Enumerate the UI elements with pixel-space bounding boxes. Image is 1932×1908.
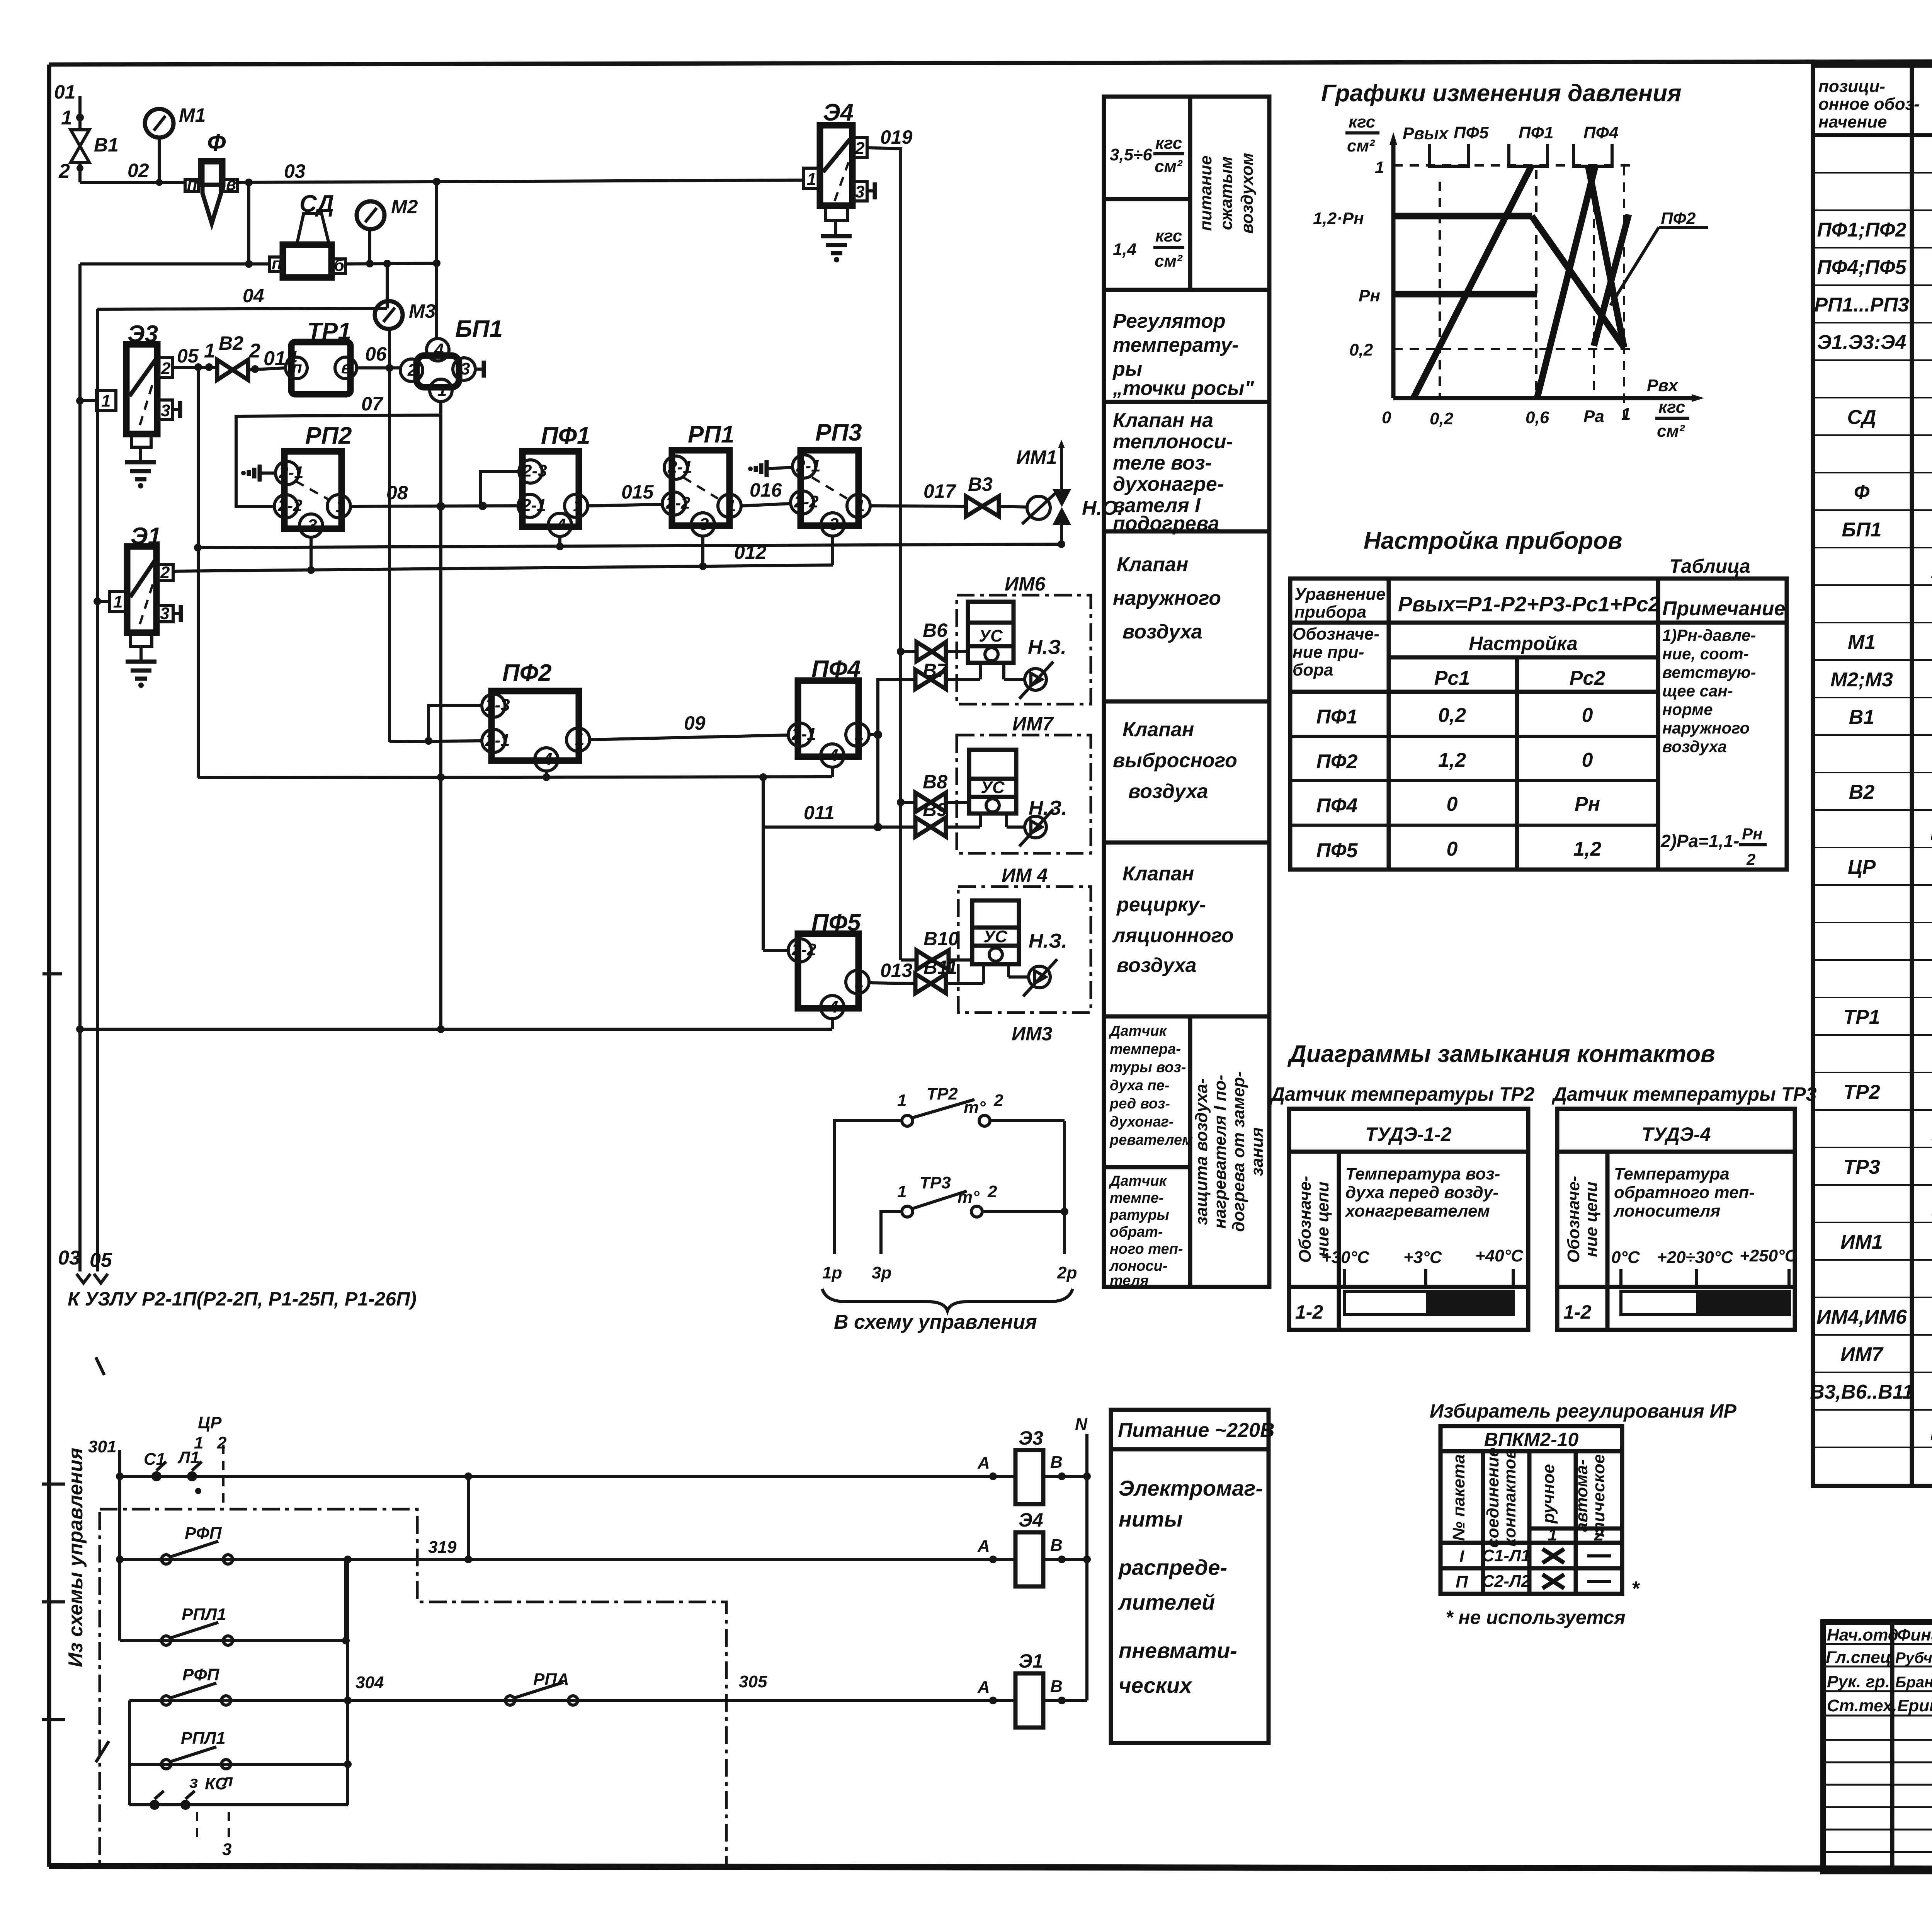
wire 08: [350, 482, 518, 511]
svg-text:05: 05: [177, 345, 199, 367]
svg-text:ИМ3: ИМ3: [1012, 1023, 1053, 1045]
spec row 12: [1931, 556, 1932, 579]
svg-text:Рвых=Р1-Р2+Р3-Рс1+Рс2: Рвых=Р1-Р2+Р3-Рс1+Рс2: [1398, 592, 1660, 616]
wire 09: [590, 712, 788, 740]
svg-text:В6: В6: [923, 620, 948, 641]
svg-text:011: 011: [804, 802, 835, 824]
svg-text:обратного теп-: обратного теп-: [1614, 1183, 1755, 1202]
svg-text:1: 1: [575, 730, 584, 749]
enclosure IM7: [957, 713, 1091, 853]
ground at RP3: [748, 460, 793, 477]
spec row 35: [1930, 1418, 1932, 1441]
node 1p 3p 2p rail: [822, 1121, 1077, 1333]
graph grid dashed: [1393, 165, 1633, 423]
svg-text:ПФ1: ПФ1: [1519, 123, 1553, 142]
svg-text:1: 1: [726, 496, 736, 515]
ladder rail: [88, 1437, 120, 1641]
spec row 18: [1849, 781, 1932, 803]
svg-text:06: 06: [365, 343, 387, 365]
wire 04: [97, 264, 387, 1271]
rung 3 RPL1: [120, 1559, 350, 1645]
spec row 29: [1931, 1193, 1932, 1216]
ground under E1: [126, 647, 156, 688]
wire BP1-1 drop: [439, 415, 442, 1029]
wire PF4 out junction: [869, 679, 915, 831]
svg-text:4: 4: [828, 746, 838, 765]
svg-text:температу-: температу-: [1113, 334, 1238, 356]
svg-text:305: 305: [739, 1672, 767, 1691]
svg-text:прибора: прибора: [1294, 603, 1366, 621]
svg-text:3: 3: [160, 604, 169, 623]
svg-text:3: 3: [161, 401, 170, 420]
svg-text:подогрева: подогрева: [1113, 512, 1219, 535]
annotation electromagnity: [1117, 1476, 1263, 1697]
svg-text:0,2: 0,2: [1430, 409, 1454, 428]
svg-text:рецирку-: рецирку-: [1116, 894, 1206, 916]
svg-text:Рн: Рн: [1742, 825, 1762, 843]
spec row 16: [1849, 706, 1932, 728]
svg-text:Температура: Температура: [1614, 1164, 1730, 1183]
svg-text:Датчик: Датчик: [1109, 1023, 1167, 1039]
annotation column grid: [1104, 97, 1269, 1287]
frame fold ticks: [42, 1484, 65, 1720]
svg-text:п: п: [292, 358, 302, 377]
svg-text:Клапан: Клапан: [1122, 718, 1194, 741]
svg-text:Э4: Э4: [1019, 1509, 1043, 1531]
svg-text:1: 1: [61, 107, 72, 129]
svg-text:3: 3: [461, 359, 470, 378]
svg-text:Клапан: Клапан: [1117, 553, 1188, 576]
svg-text:ПФ1;ПФ2: ПФ1;ПФ2: [1817, 219, 1906, 241]
svg-text:ТР2: ТР2: [1843, 1081, 1880, 1103]
svg-text:0: 0: [1582, 749, 1593, 771]
svg-text:3: 3: [222, 1840, 231, 1859]
svg-text:УС: УС: [979, 626, 1003, 645]
svg-text:Рн: Рн: [1575, 793, 1600, 815]
graph y tick labels: [1313, 158, 1384, 359]
svg-text:нагревателя I по-: нагревателя I по-: [1211, 1075, 1230, 1229]
svg-text:ние при-: ние при-: [1293, 643, 1364, 662]
svg-text:4: 4: [543, 750, 552, 769]
svg-text:I: I: [1459, 1547, 1464, 1566]
spec row 33: [1840, 1343, 1932, 1366]
spec row 24: [1843, 1006, 1932, 1028]
svg-text:ПФ2: ПФ2: [1316, 751, 1358, 773]
spec row 28: [1843, 1156, 1932, 1178]
svg-text:04: 04: [243, 285, 264, 306]
wire 03: [238, 160, 803, 186]
svg-text:в: в: [341, 358, 352, 377]
svg-text:лоносителя: лоносителя: [1613, 1202, 1720, 1220]
svg-text:Обозначе-: Обозначе-: [1293, 625, 1379, 643]
svg-text:М2: М2: [391, 196, 418, 218]
svg-text:лоноси-: лоноси-: [1109, 1258, 1168, 1274]
relay RP2: [274, 422, 352, 537]
svg-text:4: 4: [828, 997, 838, 1016]
svg-text:соединение: соединение: [1483, 1447, 1502, 1547]
svg-text:РПА: РПА: [533, 1670, 569, 1689]
svg-text:3: 3: [308, 516, 317, 535]
svg-text:ПФ1: ПФ1: [541, 422, 590, 449]
svg-text:кгс: кгс: [1155, 226, 1182, 245]
svg-text:пневмати-: пневмати-: [1119, 1638, 1237, 1663]
diagrams title: [1269, 1041, 1817, 1105]
svg-text:ТР2: ТР2: [927, 1084, 958, 1103]
svg-text:туры воз-: туры воз-: [1110, 1059, 1186, 1076]
spec row 5: [1814, 294, 1932, 316]
svg-text:ние цепи: ние цепи: [1582, 1181, 1601, 1257]
valve B8: [897, 771, 969, 812]
svg-text:ИМ4,ИМ6: ИМ4,ИМ6: [1816, 1306, 1907, 1328]
sensor table TP2: [1289, 1109, 1528, 1330]
svg-text:Фингер: Фингер: [1897, 1625, 1932, 1644]
graph curve PF1: [1393, 165, 1595, 398]
svg-text:301: 301: [88, 1437, 116, 1456]
svg-text:Н.З.: Н.З.: [1029, 930, 1067, 952]
svg-text:ИМ1: ИМ1: [1840, 1231, 1883, 1253]
svg-text:БП1: БП1: [1842, 519, 1881, 541]
svg-text:духа перед возду-: духа перед возду-: [1345, 1183, 1498, 1202]
svg-text:2: 2: [217, 1433, 227, 1452]
svg-text:Рс2: Рс2: [1570, 667, 1605, 689]
ground under E4: [821, 220, 852, 262]
svg-text:2)Ра=1,1-: 2)Ра=1,1-: [1660, 831, 1739, 851]
nastroika note: [1660, 626, 1762, 868]
svg-text:*: *: [1631, 1578, 1640, 1600]
svg-text:С2-Л2: С2-Л2: [1482, 1572, 1531, 1591]
svg-text:сжатым: сжатым: [1217, 157, 1236, 230]
svg-text:М1: М1: [1848, 631, 1876, 654]
svg-text:1: 1: [854, 725, 864, 744]
svg-text:ного теп-: ного теп-: [1110, 1241, 1183, 1257]
svg-text:С1: С1: [144, 1450, 165, 1469]
svg-text:кгс: кгс: [1658, 398, 1685, 417]
svg-text:Нач.отд: Нач.отд: [1827, 1625, 1898, 1644]
svg-text:Диаграммы замыкания контактов: Диаграммы замыкания контактов: [1287, 1041, 1715, 1067]
svg-text:03: 03: [284, 160, 306, 182]
svg-text:015: 015: [621, 481, 654, 503]
spec row 15: [1830, 669, 1932, 691]
svg-text:догрева от замер-: догрева от замер-: [1229, 1071, 1248, 1232]
svg-text:1-2: 1-2: [1563, 1301, 1591, 1323]
annotation pitanie 220 box: [1111, 1410, 1275, 1743]
svg-text:В1: В1: [94, 134, 119, 156]
svg-text:Ф: Ф: [207, 129, 226, 156]
annotation 1.4 kgs: [1113, 226, 1184, 271]
summator PF4: [788, 656, 869, 767]
svg-text:+250°С: +250°С: [1740, 1246, 1798, 1265]
pump IM4: [1009, 930, 1067, 996]
svg-text:духонагре-: духонагре-: [1113, 473, 1224, 495]
svg-text:1: 1: [1375, 158, 1384, 177]
svg-text:013: 013: [880, 960, 913, 981]
actuator US IM6: [968, 602, 1014, 679]
spec table grid: [1813, 66, 1932, 1486]
svg-text:Уравнение: Уравнение: [1294, 585, 1386, 604]
regulator SD: [270, 191, 345, 277]
wire bus1: [198, 767, 832, 781]
svg-text:Э1.Э3:Э4: Э1.Э3:Э4: [1817, 331, 1906, 354]
svg-text:ПФ5: ПФ5: [1454, 123, 1489, 142]
rung 1 C1 L1 CR: [116, 1413, 1015, 1509]
svg-text:РП1...РП3: РП1...РП3: [1814, 294, 1909, 316]
svg-text:РФП: РФП: [182, 1665, 220, 1684]
svg-text:2: 2: [407, 361, 417, 380]
svg-text:* не используется: * не используется: [1446, 1607, 1626, 1628]
wire 02: [80, 160, 185, 186]
svg-text:ПФ2: ПФ2: [502, 660, 551, 686]
svg-text:ческих: ческих: [1119, 1673, 1193, 1697]
spec row 6: [1817, 331, 1932, 354]
svg-text:Рвых: Рвых: [1403, 124, 1449, 143]
wire row line 1415: [194, 536, 1065, 551]
svg-text:т°: т°: [964, 1098, 986, 1117]
svg-text:УС: УС: [981, 778, 1005, 797]
contact TP2: [835, 1084, 1065, 1254]
svg-text:1: 1: [807, 170, 816, 189]
svg-text:0°С: 0°С: [1611, 1248, 1640, 1267]
svg-text:духонаг-: духонаг-: [1110, 1114, 1174, 1130]
graph axes: [1389, 132, 1704, 402]
svg-text:+3°С: +3°С: [1403, 1248, 1442, 1267]
svg-text:В3: В3: [968, 473, 993, 495]
wire 016: [741, 479, 791, 506]
svg-text:духа пе-: духа пе-: [1110, 1077, 1169, 1094]
svg-text:п: п: [272, 254, 282, 273]
rung 4 RFP 304 RPA 305: [129, 1665, 1015, 1705]
spec row 8: [1847, 406, 1932, 429]
wire 07: [236, 393, 441, 506]
svg-text:Настройка приборов: Настройка приборов: [1364, 528, 1622, 554]
svg-text:1: 1: [194, 1433, 203, 1452]
spec row 4: [1817, 256, 1932, 279]
svg-text:см²: см²: [1657, 422, 1685, 441]
svg-text:кгс: кгс: [1349, 112, 1375, 131]
svg-text:ЦР: ЦР: [1848, 856, 1876, 878]
svg-text:ПФ2: ПФ2: [1661, 209, 1696, 228]
svg-text:Рн: Рн: [1359, 286, 1380, 305]
svg-text:Рубчинский: Рубчинский: [1895, 1649, 1932, 1666]
svg-text:контактов: контактов: [1500, 1448, 1519, 1547]
svg-text:М3: М3: [409, 300, 436, 322]
svg-text:4: 4: [556, 515, 566, 534]
svg-text:защита воздуха-: защита воздуха-: [1192, 1078, 1211, 1225]
svg-text:Электромаг-: Электромаг-: [1119, 1476, 1263, 1500]
svg-text:ниты: ниты: [1119, 1507, 1183, 1531]
svg-text:304: 304: [355, 1673, 384, 1692]
svg-text:N: N: [1075, 1415, 1088, 1434]
graph x tick labels: [1382, 405, 1631, 428]
svg-text:+30°С: +30°С: [1321, 1248, 1370, 1267]
rung 5 RPL1 parallel: [129, 1559, 352, 1805]
wire bus left: [78, 264, 82, 1271]
svg-text:РФП: РФП: [185, 1524, 222, 1543]
svg-text:3: 3: [699, 515, 709, 534]
valve B9: [915, 799, 980, 837]
svg-text:Регулятор: Регулятор: [1113, 310, 1226, 332]
valve B11: [915, 957, 957, 993]
distributor E4: [803, 99, 875, 220]
svg-text:Рвх: Рвх: [1647, 376, 1679, 395]
contact TP3: [881, 1173, 1068, 1254]
svg-text:03: 03: [58, 1247, 80, 1269]
svg-text:ТР1: ТР1: [1843, 1006, 1880, 1028]
valve B1: [58, 130, 119, 182]
rung 1 to 2 link: [464, 1476, 472, 1563]
svg-text:0,6: 0,6: [1526, 408, 1549, 427]
nastroika title: [1364, 528, 1750, 577]
wire 013: [869, 960, 983, 984]
svg-text:1,2: 1,2: [1438, 749, 1466, 771]
wire BP1 feed: [433, 182, 440, 339]
svg-text:019: 019: [880, 126, 913, 148]
svg-text:Обозначе-: Обозначе-: [1296, 1176, 1315, 1263]
graph curve PF5: [1393, 165, 1532, 398]
svg-text:В2: В2: [219, 332, 243, 354]
wire M3 drop to PF2: [388, 368, 391, 742]
svg-text:воздуха: воздуха: [1128, 780, 1208, 803]
svg-text:2: 2: [161, 359, 171, 378]
svg-text:2-1: 2-1: [521, 496, 546, 515]
svg-text:ТР3: ТР3: [920, 1173, 951, 1192]
svg-text:Обозначе-: Обозначе-: [1564, 1176, 1583, 1263]
svg-text:2: 2: [1594, 1525, 1604, 1544]
svg-text:воздухом: воздухом: [1238, 153, 1257, 233]
svg-text:+40°С: +40°С: [1475, 1246, 1524, 1265]
svg-text:наружного: наружного: [1662, 719, 1750, 737]
svg-text:2-2: 2-2: [665, 494, 690, 512]
svg-text:Ра: Ра: [1583, 407, 1604, 426]
annotation klapan naruzhnogo: [1113, 553, 1221, 643]
svg-text:Ф: Ф: [1854, 481, 1870, 504]
svg-text:хонагревателем: хонагревателем: [1345, 1202, 1490, 1220]
svg-text:бора: бора: [1293, 660, 1333, 679]
svg-text:Клапан на: Клапан на: [1113, 409, 1213, 432]
svg-text:1: 1: [855, 496, 865, 515]
svg-text:СД: СД: [1847, 406, 1876, 429]
wire PF2 feed: [389, 741, 482, 742]
svg-text:РП3: РП3: [815, 419, 862, 446]
svg-text:см²: см²: [1155, 252, 1183, 271]
svg-text:2: 2: [855, 139, 865, 158]
svg-text:ратуры: ратуры: [1109, 1207, 1169, 1223]
svg-text:ред воз-: ред воз-: [1109, 1096, 1170, 1112]
nastroika table grid: [1290, 579, 1787, 870]
thermo TP1: [286, 318, 357, 394]
svg-text:А: А: [977, 1537, 990, 1556]
wire 05 labels bottom: [58, 1247, 112, 1283]
svg-text:В схему управления: В схему управления: [834, 1311, 1037, 1333]
svg-text:Н.З.: Н.З.: [1028, 636, 1066, 659]
wire filter to SD: [245, 182, 253, 268]
svg-text:В: В: [1050, 1677, 1063, 1696]
svg-text:ВПКМ2-10: ВПКМ2-10: [1484, 1429, 1579, 1450]
spec row 32: [1816, 1306, 1932, 1328]
svg-text:ние, соот-: ние, соот-: [1662, 645, 1749, 663]
wire 015: [588, 481, 662, 506]
graph curve labels: [1403, 123, 1618, 166]
svg-text:1,2·Рн: 1,2·Рн: [1313, 209, 1364, 228]
svg-text:зания: зания: [1248, 1127, 1267, 1176]
svg-text:05: 05: [90, 1249, 112, 1271]
spec row 14: [1848, 631, 1932, 654]
svg-text:0: 0: [1382, 408, 1391, 427]
text K uzlu: [68, 1288, 417, 1310]
svg-text:наружного: наружного: [1113, 587, 1221, 609]
svg-text:1: 1: [897, 1091, 906, 1110]
svg-text:3: 3: [855, 182, 864, 201]
gauge M3: [375, 300, 436, 368]
summator PF5: [788, 909, 869, 1019]
svg-text:1: 1: [437, 381, 447, 400]
svg-text:з: з: [189, 1773, 198, 1792]
svg-text:ЦР: ЦР: [198, 1413, 222, 1432]
graph curve falling2: [1588, 165, 1624, 347]
wire 683 run: [80, 260, 437, 267]
svg-text:теле воз-: теле воз-: [1113, 452, 1212, 474]
svg-text:08: 08: [386, 482, 408, 504]
svg-text:ИМ7: ИМ7: [1840, 1343, 1884, 1366]
svg-text:Примечание: Примечание: [1662, 597, 1785, 620]
svg-text:2-2: 2-2: [794, 492, 819, 511]
svg-text:Гл.спец: Гл.спец: [1826, 1648, 1891, 1667]
svg-text:ИМ1: ИМ1: [1016, 446, 1057, 468]
svg-text:Ерина: Ерина: [1897, 1696, 1932, 1715]
svg-text:ревателем: ревателем: [1109, 1132, 1193, 1148]
svg-text:3р: 3р: [872, 1263, 891, 1282]
svg-text:см²: см²: [1347, 136, 1375, 155]
annotation datchik 1: [1109, 1023, 1193, 1148]
svg-text:Графики изменения давления: Графики изменения давления: [1321, 80, 1681, 107]
svg-text:2-3: 2-3: [485, 696, 510, 715]
wire 017: [870, 480, 966, 506]
rung 2 RFP 319: [116, 1524, 1015, 1564]
wire 012: [173, 536, 833, 574]
svg-text:ручное: ручное: [1539, 1464, 1558, 1524]
electromagnet E3: [977, 1427, 1091, 1504]
relay RP1: [662, 421, 741, 536]
svg-text:М1: М1: [179, 104, 206, 126]
svg-text:Бранштейн: Бранштейн: [1895, 1674, 1932, 1691]
svg-text:ПФ4: ПФ4: [1316, 795, 1358, 817]
svg-text:Э3: Э3: [1019, 1427, 1043, 1449]
distributor E3: [76, 321, 180, 447]
svg-text:В3,В6..В11: В3,В6..В11: [1810, 1381, 1913, 1403]
nastroika rows: [1316, 704, 1602, 862]
svg-text:1,2: 1,2: [1573, 838, 1601, 860]
wire 05-014: [172, 340, 217, 371]
sensor table TP3: [1557, 1109, 1798, 1330]
svg-text:А: А: [977, 1454, 990, 1472]
annotation klapan recirk: [1112, 863, 1234, 977]
svg-text:01: 01: [54, 81, 76, 103]
svg-text:Температура воз-: Температура воз-: [1345, 1164, 1500, 1183]
spec row 20: [1848, 856, 1932, 878]
svg-text:2-1: 2-1: [791, 725, 816, 744]
svg-text:2-1: 2-1: [485, 731, 510, 750]
relay RP3: [791, 419, 870, 536]
svg-text:в: в: [226, 175, 236, 194]
graph axis unit top: [1345, 112, 1379, 155]
svg-text:С1-Л1: С1-Л1: [1482, 1546, 1531, 1565]
annotation 3.5-6 kgs: [1110, 134, 1184, 176]
svg-text:см²: см²: [1155, 157, 1183, 176]
svg-text:ПФ4;ПФ5: ПФ4;ПФ5: [1817, 256, 1906, 279]
svg-text:Таблица: Таблица: [1669, 555, 1750, 577]
svg-text:2-2: 2-2: [791, 940, 816, 959]
svg-text:РПЛ1: РПЛ1: [181, 1729, 226, 1748]
wire bus2: [76, 1019, 832, 1033]
